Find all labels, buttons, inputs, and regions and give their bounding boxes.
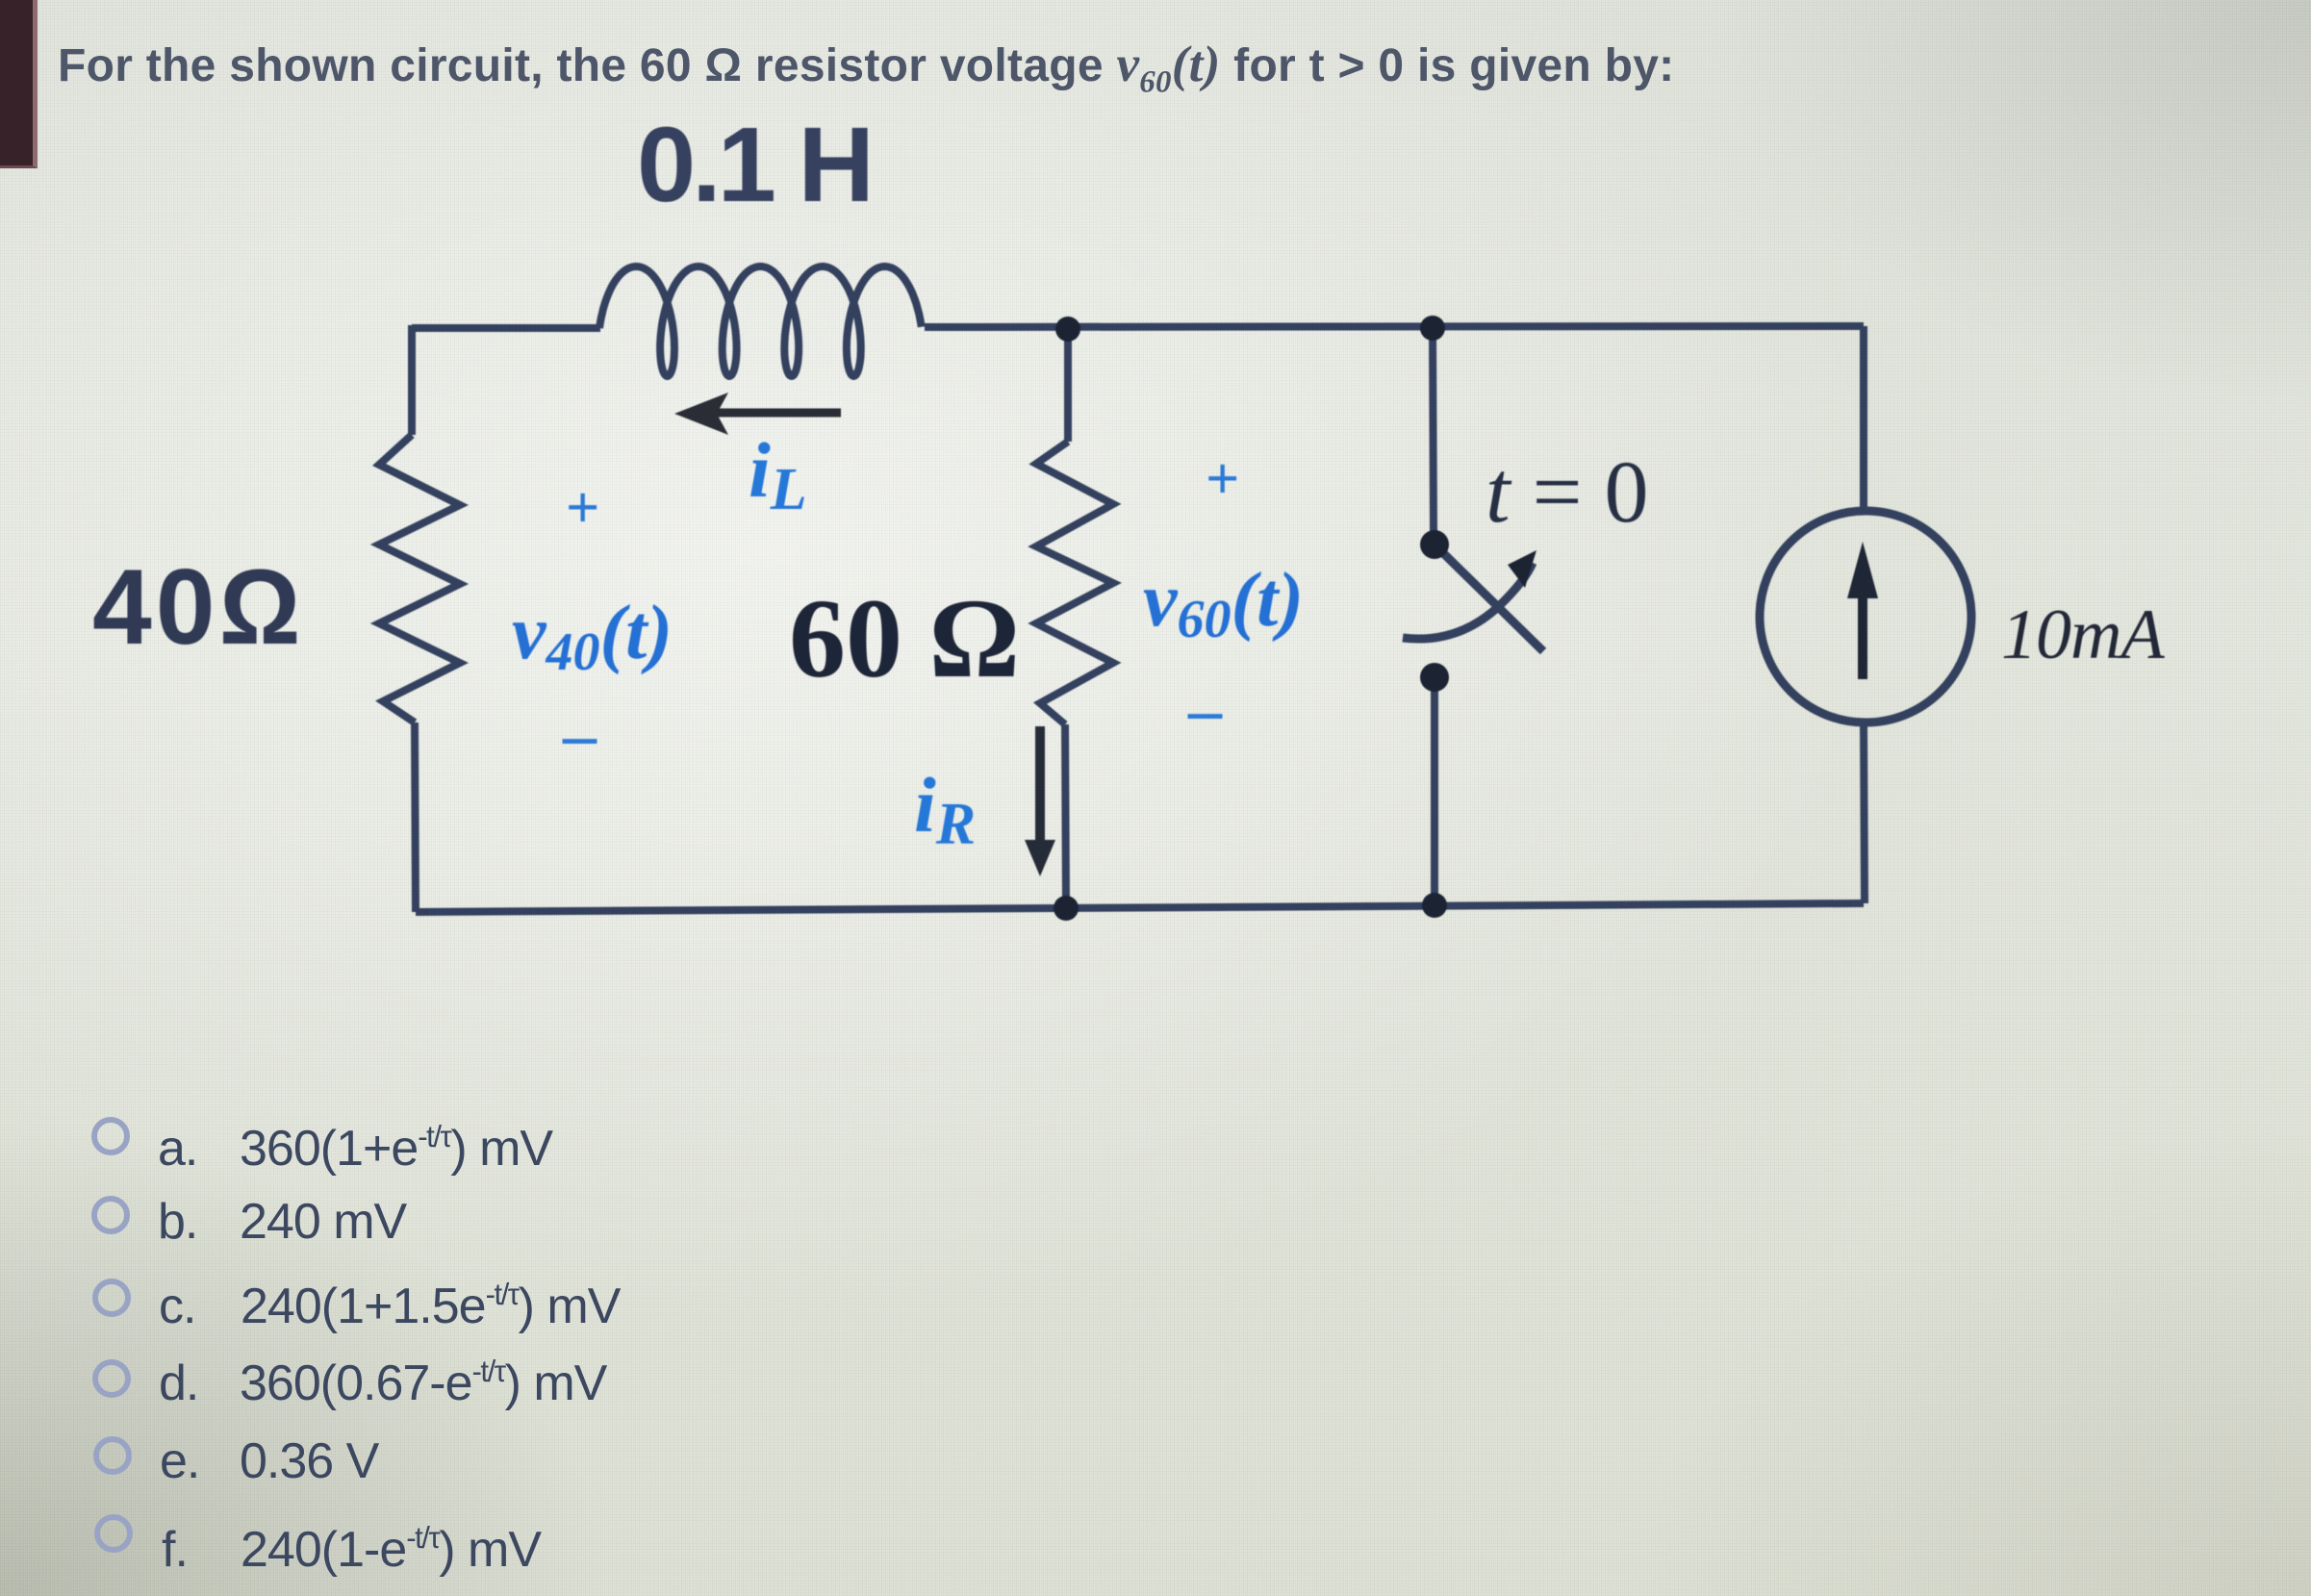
svg-text:t = 0: t = 0 (1486, 443, 1648, 541)
wire top rail right segment (925, 326, 1864, 327)
wire 60ohm branch top (1064, 326, 1072, 442)
resistor current arrow iR (1025, 726, 1055, 876)
wire top rail left segment (412, 324, 600, 332)
resistor 60ohm zigzag (1036, 442, 1113, 724)
wire right rail bottom (1864, 722, 1865, 903)
wire left rail bottom (415, 722, 416, 912)
options (91, 1117, 130, 1155)
sidebar fragment (0, 0, 38, 168)
svg-text:+: + (1206, 446, 1239, 512)
title (58, 36, 1674, 93)
wire left rail top (408, 325, 416, 435)
switch SW1 motion arc (1403, 563, 1533, 639)
svg-text:v40(t): v40(t) (512, 591, 673, 682)
svg-text:0.1 H: 0.1 H (637, 106, 871, 224)
switch top terminal dot (1420, 530, 1449, 559)
resistor 40ohm zigzag (379, 435, 460, 722)
switch arrowhead (1508, 550, 1536, 588)
current source I1 circle (1760, 511, 1971, 722)
inductor L1 0.1H coil (599, 266, 922, 376)
node A top of 60ohm (1055, 317, 1080, 342)
current source arrow (1847, 542, 1878, 679)
svg-text:–: – (562, 698, 597, 773)
wire right rail top (1860, 326, 1867, 512)
svg-text:10mA: 10mA (2001, 595, 2165, 674)
svg-text:40Ω: 40Ω (92, 547, 305, 667)
node B top of switch branch (1420, 316, 1445, 341)
svg-text:+: + (566, 475, 599, 541)
wire switch branch top (1433, 326, 1434, 531)
svg-text:60 Ω: 60 Ω (789, 575, 1018, 701)
switch bottom terminal dot (1420, 663, 1449, 692)
switch SW1 blade (1435, 545, 1543, 651)
inductor current arrow iL (674, 393, 841, 435)
wire 60ohm branch bottom (1065, 724, 1066, 907)
svg-text:iL: iL (749, 426, 807, 522)
wire switch branch bottom (1431, 689, 1438, 905)
svg-text:v60(t): v60(t) (1143, 558, 1304, 649)
svg-text:–: – (1187, 673, 1223, 747)
svg-text:iR: iR (914, 761, 976, 857)
node C bottom of 60ohm (1054, 896, 1079, 921)
wire bottom rail (416, 903, 1864, 912)
node D bottom of switch branch (1422, 893, 1447, 918)
